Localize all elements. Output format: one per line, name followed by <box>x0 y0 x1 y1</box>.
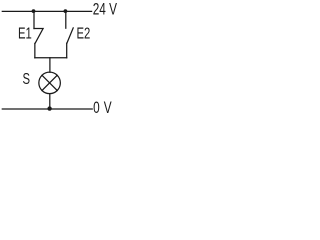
svg-text:0 V: 0 V <box>93 99 112 115</box>
node: junction dot E1 branch on 24 V rail <box>32 9 36 13</box>
wire: drop from merge bar to lamp <box>49 58 51 72</box>
wire: E2 top terminal <box>65 11 67 28</box>
wire: E1 bottom terminal <box>34 43 36 57</box>
svg-text:E2: E2 <box>77 25 91 42</box>
svg-text:24 V: 24 V <box>93 1 118 19</box>
wire: lamp to 0 V rail <box>49 94 51 109</box>
wire: E1 top terminal <box>33 11 35 28</box>
wire: merge bar joining E1 and E2 branches <box>35 57 67 59</box>
wire: 24 V supply rail <box>2 10 91 12</box>
node: junction dot E2 branch on 24 V rail <box>64 9 68 13</box>
wire: E2 bottom terminal <box>66 43 68 58</box>
lamp S (indicator light) <box>39 72 61 94</box>
svg-text:E1: E1 <box>18 25 32 42</box>
wire: 0 V return rail <box>2 108 92 110</box>
node: junction dot lamp on 0 V rail <box>47 106 51 110</box>
switch E1 (NC break contact) <box>34 29 43 44</box>
switch E2 (NO make contact) <box>67 28 73 43</box>
svg-text:S: S <box>23 70 31 87</box>
